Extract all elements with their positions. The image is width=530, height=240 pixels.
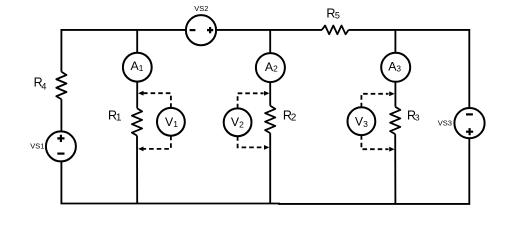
- svg-text:R2: R2: [283, 108, 297, 123]
- svg-text:R4: R4: [34, 75, 47, 91]
- svg-text:R1: R1: [108, 108, 122, 123]
- svg-text:R3: R3: [407, 109, 420, 123]
- svg-text:VS3: VS3: [438, 119, 452, 128]
- svg-text:R5: R5: [326, 7, 340, 21]
- svg-text:VS1: VS1: [30, 142, 44, 151]
- svg-text:VS2: VS2: [194, 4, 208, 13]
